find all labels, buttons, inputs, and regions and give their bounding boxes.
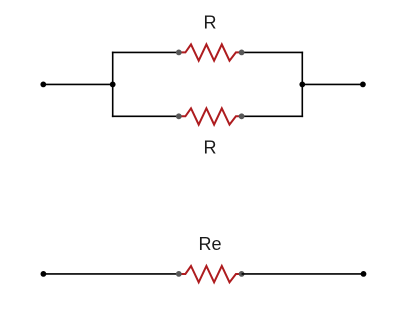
node A (left terminal): [40, 82, 46, 88]
svg-text:R: R: [204, 138, 217, 158]
label R (bottom resistor value): [204, 138, 217, 158]
wire (equivalent circuit, right segment): [242, 273, 364, 275]
node B (right terminal): [360, 82, 366, 88]
wire (left vertical bus): [112, 52, 114, 118]
wire (equivalent circuit, left segment): [43, 273, 178, 275]
wire (right lead of parallel pair): [302, 83, 363, 85]
svg-text:R: R: [204, 13, 217, 33]
junction (left split): [110, 82, 116, 88]
resistor Re (equivalent): [176, 266, 245, 282]
wire (left lead of parallel pair): [43, 83, 112, 85]
wire (top branch, left segment): [112, 51, 179, 53]
wire (bottom branch, right segment): [242, 115, 304, 117]
wire (top branch, right segment): [242, 51, 304, 53]
resistor R (bottom): [176, 108, 245, 124]
node C (equivalent circuit left terminal): [41, 271, 47, 277]
wire (bottom branch, left segment): [112, 115, 179, 117]
resistor R (top): [176, 44, 245, 60]
label R (top resistor value): [204, 13, 217, 33]
node D (equivalent circuit right terminal): [361, 271, 367, 277]
label Re (equivalent resistor value): [198, 234, 221, 254]
wire (right vertical bus): [301, 52, 303, 118]
svg-text:Re: Re: [198, 234, 221, 254]
junction (right merge): [299, 82, 305, 88]
